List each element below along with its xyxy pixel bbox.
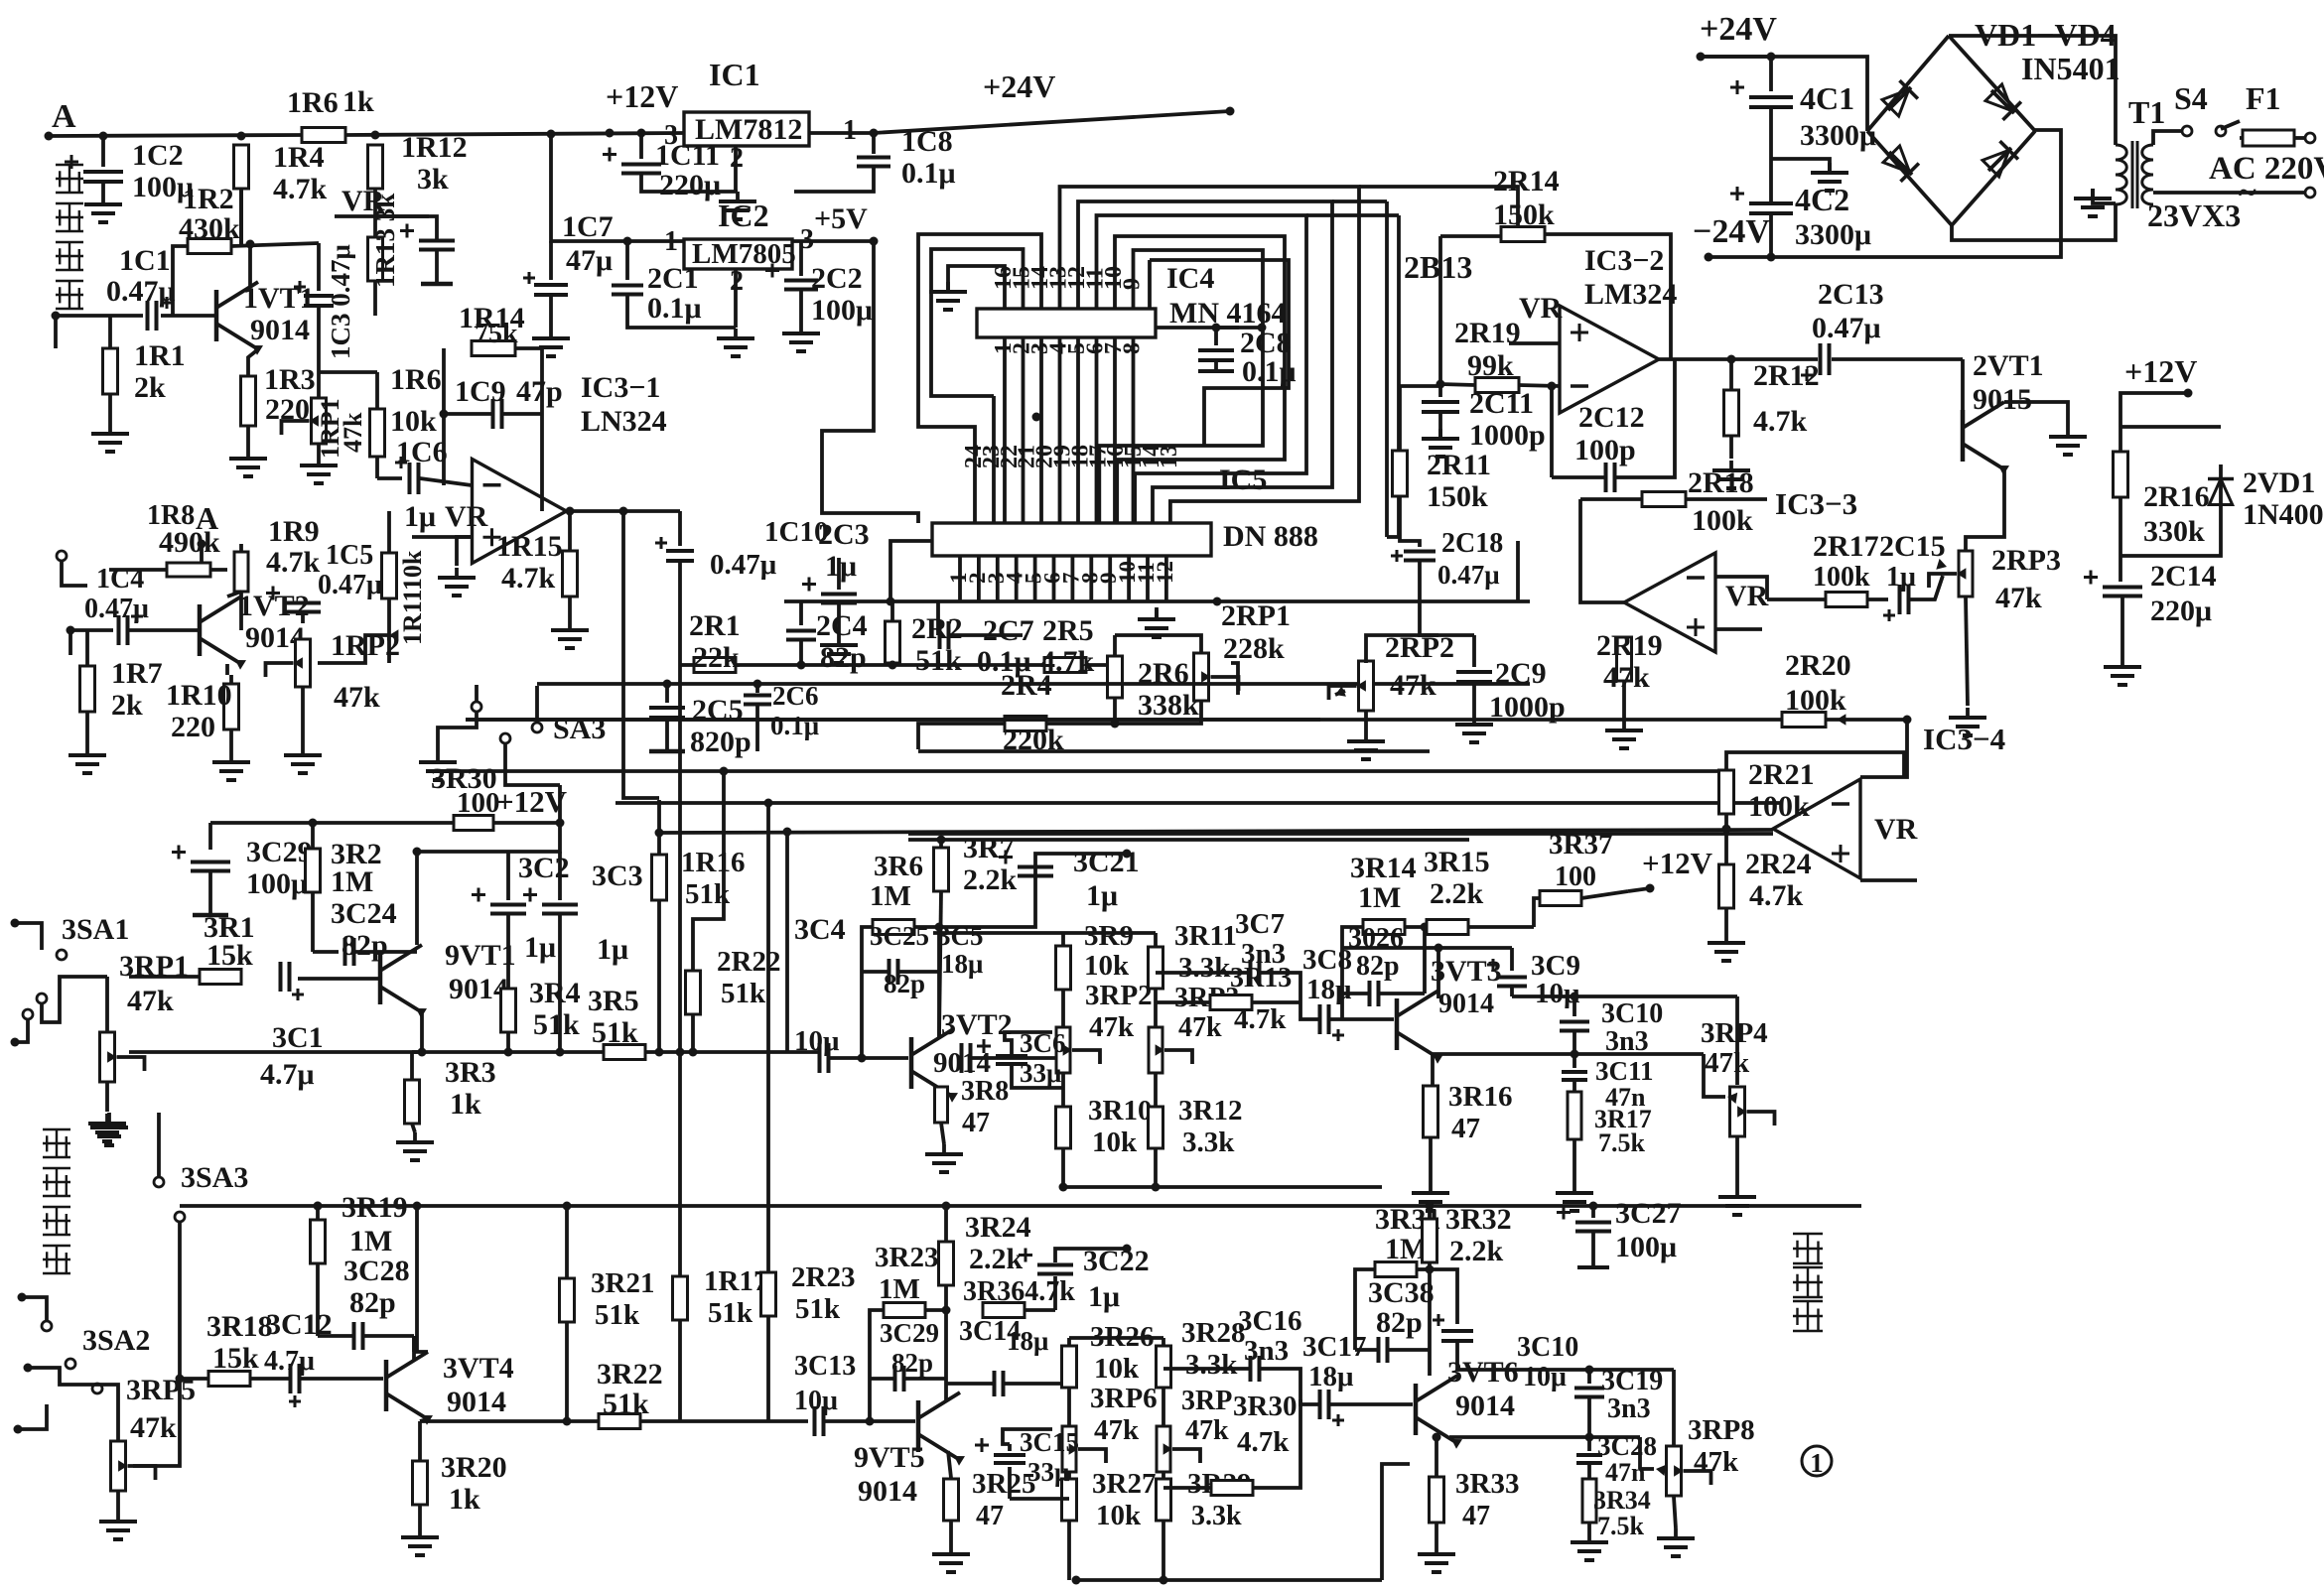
svg-text:51k: 51k bbox=[592, 1016, 638, 1049]
svg-text:4.7k: 4.7k bbox=[273, 173, 328, 205]
svg-text:3C13: 3C13 bbox=[794, 1351, 856, 1382]
svg-text:2k: 2k bbox=[111, 689, 143, 722]
svg-text:4.7k: 4.7k bbox=[1234, 1003, 1287, 1035]
svg-text:100k: 100k bbox=[1813, 562, 1870, 593]
svg-text:2VD1: 2VD1 bbox=[2243, 466, 2315, 499]
svg-text:2R20: 2R20 bbox=[1785, 649, 1851, 682]
svg-text:+12V: +12V bbox=[2124, 353, 2197, 389]
svg-text:3R24: 3R24 bbox=[965, 1211, 1031, 1244]
svg-text:2R19: 2R19 bbox=[1454, 317, 1521, 349]
svg-text:3C4: 3C4 bbox=[794, 913, 846, 946]
svg-text:10μ: 10μ bbox=[794, 1025, 840, 1057]
svg-text:IC1: IC1 bbox=[709, 57, 760, 92]
svg-text:SA3: SA3 bbox=[553, 713, 606, 745]
svg-text:3R10: 3R10 bbox=[1088, 1095, 1152, 1126]
svg-text:3C15: 3C15 bbox=[1020, 1427, 1079, 1457]
svg-text:S4: S4 bbox=[2174, 80, 2208, 116]
svg-text:1R12: 1R12 bbox=[401, 131, 468, 164]
svg-text:4C1: 4C1 bbox=[1800, 80, 1854, 116]
svg-text:3C29: 3C29 bbox=[246, 836, 313, 868]
svg-text:1k: 1k bbox=[450, 1088, 481, 1121]
svg-text:10k: 10k bbox=[1084, 950, 1130, 982]
svg-text:47k: 47k bbox=[127, 985, 174, 1017]
svg-text:3C16: 3C16 bbox=[1238, 1305, 1301, 1337]
svg-text:47n: 47n bbox=[1605, 1458, 1646, 1487]
svg-text:3C24: 3C24 bbox=[331, 897, 397, 930]
svg-text:15k: 15k bbox=[212, 1342, 259, 1375]
svg-text:2C14: 2C14 bbox=[2150, 560, 2217, 593]
svg-text:+24V: +24V bbox=[1700, 11, 1777, 48]
svg-text:47k: 47k bbox=[334, 681, 380, 714]
svg-text:3R33: 3R33 bbox=[1455, 1468, 1519, 1500]
svg-text:100k: 100k bbox=[1785, 684, 1846, 717]
svg-text:2R22: 2R22 bbox=[717, 946, 780, 978]
svg-text:47: 47 bbox=[1462, 1501, 1490, 1531]
svg-text:100μ: 100μ bbox=[246, 867, 308, 900]
svg-text:IC3−4: IC3−4 bbox=[1923, 722, 2005, 756]
svg-text:100μ: 100μ bbox=[1615, 1231, 1677, 1263]
svg-text:2C9: 2C9 bbox=[1495, 657, 1547, 690]
svg-text:T1: T1 bbox=[2128, 94, 2165, 130]
svg-text:1μ: 1μ bbox=[524, 931, 556, 964]
svg-text:3C21: 3C21 bbox=[1073, 846, 1140, 878]
svg-text:3RP1: 3RP1 bbox=[119, 950, 189, 983]
svg-text:1M: 1M bbox=[870, 880, 911, 912]
svg-text:100k: 100k bbox=[1748, 790, 1810, 823]
svg-text:2C4: 2C4 bbox=[816, 609, 868, 642]
svg-text:3R15: 3R15 bbox=[1424, 846, 1490, 878]
svg-text:1000p: 1000p bbox=[1469, 419, 1546, 452]
svg-text:3R14: 3R14 bbox=[1350, 852, 1417, 884]
svg-text:3C5: 3C5 bbox=[937, 921, 984, 951]
svg-text:3R16: 3R16 bbox=[1448, 1081, 1512, 1113]
svg-text:3C28: 3C28 bbox=[343, 1255, 410, 1287]
svg-text:3RP8: 3RP8 bbox=[1688, 1414, 1755, 1446]
svg-text:IC3−3: IC3−3 bbox=[1775, 486, 1857, 521]
svg-text:3C7: 3C7 bbox=[1235, 908, 1285, 940]
svg-text:1C10: 1C10 bbox=[764, 516, 828, 548]
svg-text:2R12: 2R12 bbox=[1753, 359, 1820, 392]
svg-text:3R28: 3R28 bbox=[1181, 1317, 1245, 1349]
svg-text:0.47μ: 0.47μ bbox=[318, 570, 382, 600]
svg-text:47k: 47k bbox=[1995, 582, 2042, 614]
svg-text:3R23: 3R23 bbox=[875, 1242, 938, 1273]
svg-text:47k: 47k bbox=[339, 412, 367, 453]
svg-text:1R16: 1R16 bbox=[681, 847, 745, 878]
svg-text:10μ: 10μ bbox=[794, 1386, 838, 1416]
svg-text:47k: 47k bbox=[1094, 1414, 1140, 1446]
svg-text:4.7k: 4.7k bbox=[266, 546, 321, 579]
svg-text:VR: VR bbox=[1874, 813, 1918, 846]
svg-text:51k: 51k bbox=[721, 978, 766, 1009]
svg-text:2R17: 2R17 bbox=[1813, 530, 1879, 563]
svg-text:3R8: 3R8 bbox=[961, 1076, 1009, 1107]
svg-text:1R2: 1R2 bbox=[183, 183, 234, 215]
svg-text:3R32: 3R32 bbox=[1445, 1203, 1512, 1236]
svg-text:47μ: 47μ bbox=[566, 244, 613, 277]
svg-text:4.7k: 4.7k bbox=[501, 562, 556, 595]
svg-text:4C2: 4C2 bbox=[1795, 182, 1849, 217]
svg-text:18μ: 18μ bbox=[941, 949, 983, 979]
svg-text:1M: 1M bbox=[331, 865, 373, 898]
svg-text:2C11: 2C11 bbox=[1469, 387, 1534, 420]
svg-text:LM324: LM324 bbox=[1584, 278, 1677, 311]
svg-text:1R3: 1R3 bbox=[264, 363, 316, 396]
svg-text:4.7k: 4.7k bbox=[1749, 879, 1804, 912]
svg-text:1M: 1M bbox=[879, 1273, 920, 1305]
svg-text:2C12: 2C12 bbox=[1578, 401, 1645, 434]
svg-text:3300μ: 3300μ bbox=[1800, 119, 1876, 152]
svg-text:3.3k: 3.3k bbox=[1191, 1501, 1242, 1531]
svg-text:33μ: 33μ bbox=[1020, 1058, 1061, 1088]
svg-text:2R21: 2R21 bbox=[1748, 758, 1815, 791]
svg-text:3C10: 3C10 bbox=[1601, 998, 1663, 1029]
svg-text:82p: 82p bbox=[1376, 1306, 1423, 1339]
svg-text:2k: 2k bbox=[134, 371, 166, 404]
svg-text:1R1110k: 1R1110k bbox=[398, 550, 427, 645]
svg-text:1μ: 1μ bbox=[597, 933, 628, 966]
svg-text:47: 47 bbox=[962, 1108, 990, 1138]
svg-text:1: 1 bbox=[843, 115, 857, 146]
svg-text:~: ~ bbox=[2239, 175, 2256, 211]
svg-text:2.2k: 2.2k bbox=[1449, 1235, 1504, 1267]
svg-text:IC2: IC2 bbox=[718, 198, 769, 233]
svg-text:430k: 430k bbox=[179, 212, 240, 245]
svg-text:A: A bbox=[52, 98, 76, 135]
svg-text:2R14: 2R14 bbox=[1493, 165, 1560, 198]
svg-text:3R364.7k: 3R364.7k bbox=[963, 1276, 1075, 1307]
svg-text:1R6: 1R6 bbox=[287, 86, 339, 119]
svg-text:10k: 10k bbox=[390, 405, 437, 438]
svg-text:1μ: 1μ bbox=[1086, 879, 1118, 912]
svg-text:51k: 51k bbox=[533, 1008, 580, 1041]
svg-text:2C13: 2C13 bbox=[1818, 278, 1884, 311]
svg-text:IC5: IC5 bbox=[1219, 464, 1267, 496]
svg-text:3C6: 3C6 bbox=[1020, 1028, 1066, 1058]
svg-text:9VT5: 9VT5 bbox=[854, 1441, 925, 1474]
svg-text:330k: 330k bbox=[2143, 515, 2205, 548]
svg-text:2C18: 2C18 bbox=[1441, 528, 1503, 559]
svg-text:2R18: 2R18 bbox=[1688, 466, 1754, 499]
svg-text:3R34: 3R34 bbox=[1593, 1486, 1651, 1515]
svg-text:3.3k: 3.3k bbox=[1185, 1349, 1238, 1381]
svg-text:820p: 820p bbox=[690, 726, 752, 758]
svg-text:7.5k: 7.5k bbox=[1597, 1512, 1645, 1540]
svg-text:1C6: 1C6 bbox=[396, 436, 448, 468]
svg-text:3C38: 3C38 bbox=[1368, 1276, 1435, 1309]
svg-text:12: 12 bbox=[1153, 561, 1177, 584]
svg-text:F1: F1 bbox=[2246, 80, 2281, 116]
svg-text:0.47μ: 0.47μ bbox=[1812, 312, 1881, 344]
svg-text:IC3−2: IC3−2 bbox=[1584, 244, 1664, 277]
svg-text:4.7k: 4.7k bbox=[1753, 405, 1808, 438]
svg-text:4.7k: 4.7k bbox=[1237, 1426, 1290, 1458]
svg-text:3C29: 3C29 bbox=[880, 1318, 939, 1348]
svg-text:1k: 1k bbox=[342, 85, 374, 118]
svg-text:220μ: 220μ bbox=[659, 169, 721, 201]
svg-text:338k: 338k bbox=[1138, 689, 1199, 722]
svg-text:+5V: +5V bbox=[814, 202, 868, 235]
svg-text:47k: 47k bbox=[1390, 669, 1436, 702]
svg-text:2RP3: 2RP3 bbox=[1991, 544, 2061, 577]
svg-text:1C5: 1C5 bbox=[326, 540, 373, 571]
svg-text:1R4: 1R4 bbox=[273, 141, 325, 174]
svg-text:3RP2: 3RP2 bbox=[1085, 980, 1153, 1011]
svg-text:220: 220 bbox=[171, 711, 215, 743]
svg-text:47: 47 bbox=[1451, 1113, 1480, 1144]
svg-text:1C2: 1C2 bbox=[132, 139, 184, 172]
svg-text:47k: 47k bbox=[1705, 1047, 1750, 1079]
svg-text:3RP: 3RP bbox=[1181, 1386, 1232, 1416]
svg-text:2R5: 2R5 bbox=[1042, 614, 1094, 647]
svg-text:2R24: 2R24 bbox=[1745, 848, 1812, 880]
svg-text:0.1μ: 0.1μ bbox=[901, 157, 956, 190]
svg-text:9014: 9014 bbox=[250, 314, 310, 346]
svg-text:0.1μ: 0.1μ bbox=[647, 292, 702, 325]
svg-text:2VT1: 2VT1 bbox=[1973, 349, 2044, 382]
svg-text:9014: 9014 bbox=[447, 1386, 506, 1418]
svg-text:3C25: 3C25 bbox=[870, 921, 929, 951]
svg-text:47k: 47k bbox=[1089, 1011, 1135, 1043]
svg-text:1R9: 1R9 bbox=[268, 515, 320, 548]
svg-text:LM7805: LM7805 bbox=[692, 238, 796, 270]
svg-text:2C7: 2C7 bbox=[983, 614, 1034, 647]
svg-text:LN324: LN324 bbox=[581, 405, 667, 438]
svg-text:3VT2: 3VT2 bbox=[941, 1008, 1013, 1041]
svg-text:10μ: 10μ bbox=[1523, 1362, 1567, 1392]
svg-text:0.1μ: 0.1μ bbox=[1242, 355, 1297, 388]
svg-text:228k: 228k bbox=[1223, 632, 1285, 665]
svg-text:2.2k: 2.2k bbox=[1430, 877, 1484, 910]
svg-text:3VT3: 3VT3 bbox=[1431, 955, 1502, 988]
svg-text:VD1−VD4: VD1−VD4 bbox=[1975, 17, 2117, 53]
svg-text:+12V: +12V bbox=[496, 784, 568, 819]
svg-text:−24V: −24V bbox=[1693, 213, 1770, 250]
svg-text:3.3k: 3.3k bbox=[1182, 1126, 1235, 1158]
svg-text:VR: VR bbox=[445, 500, 488, 533]
svg-text:1R10: 1R10 bbox=[166, 679, 232, 712]
svg-text:7.5k: 7.5k bbox=[1598, 1128, 1646, 1157]
svg-text:2RP1: 2RP1 bbox=[1221, 599, 1291, 632]
svg-text:82p: 82p bbox=[349, 1286, 396, 1319]
svg-text:3RP4: 3RP4 bbox=[1701, 1017, 1768, 1049]
svg-text:1C8: 1C8 bbox=[901, 125, 953, 158]
svg-text:51k: 51k bbox=[708, 1297, 753, 1329]
svg-text:2C2: 2C2 bbox=[811, 262, 863, 295]
svg-text:3R4: 3R4 bbox=[529, 977, 581, 1009]
svg-text:100: 100 bbox=[457, 787, 500, 819]
svg-text:1R8: 1R8 bbox=[147, 500, 195, 531]
svg-text:9014: 9014 bbox=[1455, 1390, 1515, 1422]
svg-text:3C11: 3C11 bbox=[1595, 1056, 1654, 1086]
svg-text:10k: 10k bbox=[1094, 1353, 1140, 1385]
svg-text:51k: 51k bbox=[595, 1299, 640, 1331]
svg-text:1R7: 1R7 bbox=[111, 657, 163, 690]
svg-text:47k: 47k bbox=[1694, 1446, 1739, 1478]
svg-text:150k: 150k bbox=[1427, 480, 1488, 513]
svg-text:1k: 1k bbox=[449, 1483, 480, 1516]
svg-text:1R13 3k: 1R13 3k bbox=[370, 194, 400, 288]
svg-text:1N4001: 1N4001 bbox=[2243, 498, 2324, 531]
svg-text:3R22: 3R22 bbox=[597, 1358, 663, 1391]
svg-text:82p: 82p bbox=[1356, 951, 1400, 982]
svg-text:3n3: 3n3 bbox=[1244, 1335, 1289, 1367]
svg-text:IC4: IC4 bbox=[1166, 262, 1214, 295]
svg-text:1C9: 1C9 bbox=[455, 375, 506, 408]
svg-text:18μ: 18μ bbox=[1306, 974, 1352, 1005]
svg-text:23VX3: 23VX3 bbox=[2147, 198, 2241, 233]
svg-text:+24V: +24V bbox=[983, 68, 1055, 104]
svg-text:3C22: 3C22 bbox=[1083, 1245, 1150, 1277]
svg-text:1M: 1M bbox=[349, 1225, 392, 1258]
svg-text:15k: 15k bbox=[206, 939, 253, 972]
svg-text:3R21: 3R21 bbox=[591, 1267, 654, 1299]
svg-text:9014: 9014 bbox=[858, 1475, 917, 1508]
svg-text:0.1μ: 0.1μ bbox=[770, 711, 819, 740]
svg-text:2.2k: 2.2k bbox=[963, 863, 1018, 896]
svg-text:47k: 47k bbox=[1603, 661, 1650, 694]
svg-text:1R17: 1R17 bbox=[704, 1265, 767, 1297]
svg-text:18μ: 18μ bbox=[1007, 1326, 1048, 1356]
svg-text:9015: 9015 bbox=[1973, 383, 2032, 416]
svg-text:4.7μ: 4.7μ bbox=[260, 1058, 315, 1091]
svg-text:1μ: 1μ bbox=[1088, 1280, 1120, 1313]
svg-text:47k: 47k bbox=[130, 1411, 177, 1444]
svg-text:47k: 47k bbox=[1178, 1012, 1222, 1043]
svg-text:3RP6: 3RP6 bbox=[1090, 1383, 1158, 1414]
svg-text:3C3: 3C3 bbox=[592, 860, 643, 892]
svg-text:100k: 100k bbox=[1692, 504, 1753, 537]
svg-text:2R19: 2R19 bbox=[1596, 629, 1663, 662]
svg-text:1M: 1M bbox=[1358, 881, 1401, 914]
svg-text:3R30: 3R30 bbox=[1233, 1391, 1297, 1422]
svg-text:IC3−1: IC3−1 bbox=[581, 371, 660, 404]
svg-text:51k: 51k bbox=[795, 1293, 841, 1325]
svg-text:8: 8 bbox=[1120, 342, 1146, 354]
svg-text:4.7μ: 4.7μ bbox=[264, 1346, 315, 1377]
svg-text:2R16: 2R16 bbox=[2143, 480, 2210, 513]
svg-text:1C4: 1C4 bbox=[96, 564, 144, 595]
svg-text:1μ: 1μ bbox=[404, 500, 436, 533]
svg-text:1C11: 1C11 bbox=[655, 139, 720, 172]
svg-text:1C1: 1C1 bbox=[119, 244, 171, 277]
svg-text:51k: 51k bbox=[603, 1388, 649, 1420]
svg-text:18μ: 18μ bbox=[1308, 1361, 1354, 1392]
svg-text:VR: VR bbox=[1725, 580, 1769, 612]
svg-text:3R18: 3R18 bbox=[206, 1310, 273, 1343]
svg-text:3R27: 3R27 bbox=[1092, 1468, 1156, 1500]
svg-text:MN 4164: MN 4164 bbox=[1169, 297, 1286, 330]
svg-text:3R11: 3R11 bbox=[1174, 920, 1237, 952]
svg-text:3SA1: 3SA1 bbox=[62, 913, 129, 946]
svg-text:3n3: 3n3 bbox=[1607, 1393, 1651, 1424]
svg-text:+12V: +12V bbox=[606, 78, 678, 114]
svg-text:0.47μ: 0.47μ bbox=[710, 549, 777, 581]
svg-text:VR: VR bbox=[1519, 292, 1563, 325]
svg-text:3.3k: 3.3k bbox=[1178, 952, 1231, 984]
svg-text:1: 1 bbox=[1810, 1448, 1824, 1478]
svg-text:+12V: +12V bbox=[1642, 846, 1713, 880]
svg-text:3C10: 3C10 bbox=[1517, 1332, 1578, 1363]
svg-text:3R3: 3R3 bbox=[445, 1056, 496, 1089]
svg-text:1μ: 1μ bbox=[825, 550, 857, 583]
svg-text:82p: 82p bbox=[891, 1348, 933, 1378]
svg-text:3R20: 3R20 bbox=[441, 1451, 507, 1484]
svg-text:100p: 100p bbox=[1574, 434, 1636, 466]
svg-text:3R25: 3R25 bbox=[972, 1468, 1035, 1500]
svg-text:1C7: 1C7 bbox=[562, 210, 614, 243]
svg-text:2R23: 2R23 bbox=[791, 1261, 855, 1293]
svg-text:75k: 75k bbox=[475, 319, 518, 349]
svg-text:13: 13 bbox=[1157, 445, 1182, 468]
svg-text:10k: 10k bbox=[1096, 1500, 1142, 1531]
svg-text:47k: 47k bbox=[1185, 1415, 1229, 1446]
svg-text:47p: 47p bbox=[516, 375, 563, 408]
svg-text:3SA2: 3SA2 bbox=[82, 1324, 150, 1357]
svg-text:1μ: 1μ bbox=[1886, 562, 1916, 593]
svg-text:3C1: 3C1 bbox=[272, 1021, 324, 1054]
svg-text:9014: 9014 bbox=[1438, 989, 1494, 1019]
svg-text:3R6: 3R6 bbox=[874, 851, 923, 882]
svg-text:220μ: 220μ bbox=[2150, 595, 2212, 627]
svg-text:9VT1: 9VT1 bbox=[445, 939, 516, 972]
svg-text:AC 220V: AC 220V bbox=[2209, 151, 2324, 187]
svg-text:3SA3: 3SA3 bbox=[181, 1161, 248, 1194]
svg-text:2C15: 2C15 bbox=[1879, 530, 1946, 563]
svg-text:100: 100 bbox=[1555, 861, 1596, 892]
svg-text:3C19: 3C19 bbox=[1601, 1366, 1663, 1396]
svg-text:3R12: 3R12 bbox=[1178, 1095, 1242, 1126]
svg-text:2C5: 2C5 bbox=[692, 694, 744, 727]
svg-text:DN 888: DN 888 bbox=[1223, 520, 1318, 553]
svg-text:22k: 22k bbox=[693, 641, 740, 674]
svg-text:3300μ: 3300μ bbox=[1795, 218, 1871, 251]
svg-text:1R6: 1R6 bbox=[390, 363, 442, 396]
svg-text:0.47μ: 0.47μ bbox=[1437, 560, 1500, 590]
svg-text:1C3 0.47μ: 1C3 0.47μ bbox=[326, 244, 355, 359]
svg-text:3C27: 3C27 bbox=[1615, 1197, 1682, 1230]
svg-text:3C28: 3C28 bbox=[1597, 1431, 1657, 1461]
svg-text:2C1: 2C1 bbox=[647, 262, 699, 295]
svg-text:82p: 82p bbox=[884, 969, 925, 998]
svg-text:2.2k: 2.2k bbox=[969, 1243, 1024, 1275]
svg-text:2R11: 2R11 bbox=[1427, 449, 1491, 481]
svg-text:IN5401: IN5401 bbox=[2021, 51, 2120, 86]
svg-text:3R13: 3R13 bbox=[1230, 963, 1292, 994]
svg-text:10k: 10k bbox=[1092, 1126, 1138, 1158]
svg-text:150k: 150k bbox=[1493, 199, 1555, 231]
svg-text:2R1: 2R1 bbox=[689, 609, 741, 642]
svg-text:3R9: 3R9 bbox=[1084, 920, 1134, 952]
svg-text:3R5: 3R5 bbox=[588, 985, 639, 1017]
svg-text:3VT4: 3VT4 bbox=[443, 1352, 514, 1385]
svg-text:82p: 82p bbox=[820, 641, 867, 674]
svg-text:47: 47 bbox=[976, 1501, 1004, 1531]
svg-text:1R1: 1R1 bbox=[134, 339, 186, 372]
svg-text:3R37: 3R37 bbox=[1549, 829, 1612, 861]
svg-text:1R15: 1R15 bbox=[496, 530, 563, 563]
svg-text:3k: 3k bbox=[417, 163, 449, 196]
svg-text:2B13: 2B13 bbox=[1404, 249, 1472, 285]
svg-text:100μ: 100μ bbox=[811, 294, 873, 327]
svg-text:3C2: 3C2 bbox=[518, 852, 570, 884]
